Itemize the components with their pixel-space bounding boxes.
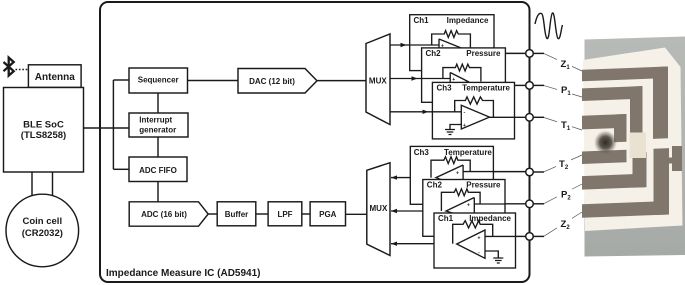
DAC (12 bit) pentagon bbox=[238, 69, 317, 94]
svg-text:-: - bbox=[464, 110, 466, 116]
terminal Z1 bbox=[526, 50, 534, 58]
svg-text:Ch3: Ch3 bbox=[414, 148, 430, 157]
Ch1 lower feedback wire bbox=[453, 224, 493, 243]
svg-text:DAC (12 bit): DAC (12 bit) bbox=[249, 77, 295, 86]
svg-text:+: + bbox=[463, 123, 466, 129]
wire Ch3 input bbox=[432, 111, 461, 113]
node label P2 bbox=[557, 188, 572, 200]
wire Ch1 lower ground bbox=[485, 251, 498, 258]
Ch3 feedback wire bbox=[455, 101, 494, 118]
stub T2 bbox=[530, 171, 545, 173]
resistor Ch3 bbox=[464, 97, 484, 104]
sensor trace Z2 bbox=[582, 201, 669, 218]
svg-text:LPF: LPF bbox=[277, 210, 292, 219]
stub P1 bbox=[530, 84, 545, 86]
sensor trace Z1 bbox=[582, 66, 668, 81]
svg-text:Buffer: Buffer bbox=[225, 210, 249, 219]
wire Ch2 input bbox=[422, 78, 451, 80]
lower MUX bbox=[367, 163, 390, 256]
leader T1 bbox=[544, 118, 582, 131]
sensor feed crossbar bbox=[664, 158, 674, 164]
photo background bbox=[582, 37, 685, 257]
svg-text:Ch2: Ch2 bbox=[427, 181, 443, 190]
wire BLE to coin cell left bbox=[31, 172, 33, 197]
Ch2 feedback wire bbox=[443, 68, 481, 82]
wire lower Ch3 output to MUX bbox=[391, 177, 436, 179]
sensor center pad bbox=[630, 133, 647, 159]
wire P2 to lower Ch2 bbox=[505, 203, 530, 205]
wire ADC to buffer bbox=[208, 213, 217, 215]
svg-text:Ch1: Ch1 bbox=[438, 214, 454, 223]
resistor Ch1 bbox=[443, 31, 460, 38]
wire Ch2 output to Z1 bbox=[505, 52, 529, 54]
svg-text:-: - bbox=[478, 250, 480, 256]
wire Ch2 lower input bbox=[474, 203, 505, 205]
coin cell circle bbox=[6, 194, 79, 267]
svg-text:(CR2032): (CR2032) bbox=[22, 228, 63, 239]
svg-text:Temperature: Temperature bbox=[462, 84, 510, 93]
stub P2 bbox=[530, 203, 545, 205]
svg-text:Temperature: Temperature bbox=[444, 148, 492, 157]
op-amp Ch1 lower bbox=[457, 230, 485, 258]
main IC box AD5941 bbox=[100, 2, 530, 282]
buffer box bbox=[217, 202, 256, 226]
node label Z2 bbox=[557, 217, 572, 229]
svg-text:Pressure: Pressure bbox=[466, 181, 501, 190]
wire upper MUX to Ch3 bbox=[390, 111, 433, 113]
Ch1 impedance box bbox=[410, 15, 494, 71]
svg-text:Pressure: Pressure bbox=[466, 49, 501, 58]
wire BLE SoC to IC bbox=[84, 127, 130, 129]
wire T2 to lower Ch3 bbox=[493, 171, 529, 173]
wire Z2 to lower Ch1 bbox=[516, 235, 530, 237]
wire upper MUX to Ch1 bbox=[390, 44, 410, 46]
dotted wire bluetooth to antenna bbox=[16, 69, 29, 71]
wire BLE to coin cell right bbox=[52, 172, 54, 197]
svg-text:BLE SoC: BLE SoC bbox=[23, 119, 64, 130]
Ch3 temperature box lower bbox=[410, 146, 493, 204]
antenna box bbox=[28, 65, 81, 88]
op-amp Ch3 bbox=[461, 105, 489, 129]
wire bus to sequencer bbox=[113, 79, 129, 81]
Ch1 feedback wire bbox=[432, 34, 471, 48]
svg-text:Impedance: Impedance bbox=[469, 214, 511, 223]
wire upper MUX to Ch2 bbox=[390, 78, 422, 80]
wire Ch1 input bbox=[410, 44, 439, 46]
resistor Ch2 lower bbox=[452, 189, 469, 196]
resistor Ch1 lower bbox=[462, 221, 482, 228]
sensor trace T1 bbox=[582, 114, 627, 129]
node label Z1 bbox=[557, 57, 572, 69]
node label T2 bbox=[556, 157, 571, 169]
svg-text:MUX: MUX bbox=[370, 204, 388, 213]
svg-text:Antenna: Antenna bbox=[35, 72, 75, 83]
svg-text:+: + bbox=[478, 236, 481, 242]
svg-text:MUX: MUX bbox=[369, 77, 387, 86]
node label T1 bbox=[557, 118, 572, 130]
sensor substrate bbox=[583, 48, 683, 232]
wire interrupt generator to ADC FIFO bbox=[157, 137, 159, 157]
terminal T2 bbox=[526, 168, 534, 176]
terminal T1 bbox=[526, 114, 534, 122]
leader Z1 bbox=[544, 54, 582, 71]
interrupt generator box bbox=[129, 113, 188, 137]
svg-text:+: + bbox=[467, 203, 470, 209]
bus wire vertical bbox=[112, 80, 114, 169]
resistor Ch3 lower bbox=[440, 157, 459, 164]
wire lower Ch2 output to MUX bbox=[391, 210, 446, 212]
svg-text:Sequencer: Sequencer bbox=[138, 75, 179, 84]
Ch3 lower feedback wire bbox=[431, 160, 470, 177]
ground lower bbox=[493, 258, 503, 263]
wire Ch1 lower input bbox=[485, 235, 516, 237]
wire Ch3 output to T1 bbox=[490, 116, 527, 118]
svg-text:ADC FIFO: ADC FIFO bbox=[139, 166, 177, 175]
burn blob bbox=[594, 131, 617, 155]
ADC FIFO box bbox=[129, 157, 187, 182]
wire PGA to lower MUX bbox=[346, 213, 367, 215]
sine wave signal bbox=[535, 13, 563, 39]
wire Ch3 output to P1 bbox=[515, 84, 530, 86]
sequencer box bbox=[129, 68, 188, 93]
Ch1 impedance box lower bbox=[434, 213, 516, 268]
sensor trace P2 bbox=[582, 174, 647, 190]
leader P2 bbox=[544, 184, 582, 204]
Ch2 pressure box lower bbox=[423, 180, 505, 237]
wire LPF to PGA bbox=[302, 213, 310, 215]
wire bus to ADC FIFO bbox=[113, 168, 129, 170]
svg-text:Interrupt: Interrupt bbox=[139, 116, 172, 125]
Ch3 temperature box bbox=[432, 82, 514, 138]
leader Z2 bbox=[544, 212, 582, 236]
op-amp Ch2 bbox=[450, 73, 468, 91]
wire DAC to upper MUX bbox=[317, 80, 366, 82]
stub Z2 bbox=[530, 235, 545, 237]
ADC (16 bit) pentagon bbox=[129, 202, 208, 226]
svg-text:Ch1: Ch1 bbox=[414, 16, 430, 25]
svg-text:Impedance Measure IC (AD5941): Impedance Measure IC (AD5941) bbox=[106, 268, 261, 279]
svg-text:Coin cell: Coin cell bbox=[23, 216, 63, 227]
svg-text:(TLS8258): (TLS8258) bbox=[21, 130, 66, 141]
Ch2 pressure box bbox=[422, 48, 506, 102]
wire ADC FIFO to ADC bbox=[157, 182, 159, 202]
leader P1 bbox=[544, 86, 582, 97]
sensor trace P1 bbox=[582, 86, 643, 101]
stub Z1 bbox=[530, 52, 545, 54]
svg-text:+: + bbox=[456, 171, 459, 177]
wire lower Ch1 output to MUX bbox=[391, 243, 457, 245]
svg-text:Ch2: Ch2 bbox=[426, 49, 442, 58]
terminal Z2 bbox=[526, 233, 534, 241]
Ch2 lower feedback wire bbox=[441, 192, 480, 211]
op-amp Ch2 lower bbox=[446, 198, 474, 221]
wire sequencer to interrupt generator bbox=[157, 93, 159, 113]
terminal P1 bbox=[526, 82, 534, 90]
upper MUX bbox=[366, 34, 390, 125]
wire Ch3 ground bbox=[450, 125, 461, 130]
svg-text:generator: generator bbox=[139, 126, 176, 135]
sensor trace T2 bbox=[582, 150, 627, 164]
wire Ch3 lower input bbox=[463, 171, 493, 173]
op-amp Ch3 lower bbox=[436, 165, 463, 188]
leader T2 bbox=[544, 155, 582, 172]
sensor feed stub right bbox=[672, 146, 682, 171]
svg-text:Ch3: Ch3 bbox=[437, 84, 453, 93]
stub T1 bbox=[530, 116, 545, 118]
LPF box bbox=[268, 202, 302, 226]
wire sequencer to DAC bbox=[188, 80, 239, 82]
svg-text:PGA: PGA bbox=[319, 210, 337, 219]
node label P1 bbox=[557, 83, 572, 95]
BLE SoC box bbox=[4, 88, 84, 173]
bluetooth symbol bbox=[4, 58, 14, 76]
svg-text:Impedance: Impedance bbox=[447, 16, 489, 25]
svg-text:ADC (16 bit): ADC (16 bit) bbox=[141, 210, 187, 219]
wire buffer to LPF bbox=[256, 213, 268, 215]
op-amp Ch1 bbox=[439, 39, 460, 56]
resistor Ch2 bbox=[454, 64, 471, 71]
PGA box bbox=[310, 202, 345, 226]
ground bbox=[445, 130, 455, 135]
terminal P2 bbox=[526, 200, 534, 208]
